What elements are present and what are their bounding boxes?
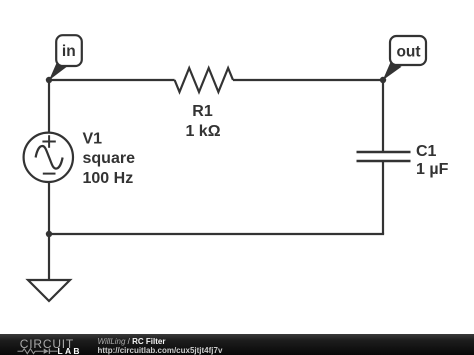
capacitor C1 plates — [357, 151, 411, 154]
wire: bottom horizontal from junction to bottom-right corner — [49, 233, 384, 235]
node in junction dot — [46, 77, 52, 83]
svg-text:1 kΩ: 1 kΩ — [185, 123, 220, 140]
svg-text:out: out — [396, 44, 420, 61]
svg-text:R1: R1 — [192, 103, 213, 120]
wire: right vertical from capacitor C1 down to bottom corner — [382, 162, 384, 234]
bottom junction dot — [46, 231, 52, 237]
footer bar — [0, 334, 474, 355]
ground symbol — [28, 280, 70, 301]
svg-text:1 µF: 1 µF — [416, 161, 449, 178]
wire: top-left horizontal from node in to resistor R1 — [49, 79, 175, 81]
wire: left vertical from V1 bottom to bottom junction — [48, 182, 50, 234]
node out junction dot — [380, 77, 386, 83]
svg-text:100 Hz: 100 Hz — [83, 170, 134, 187]
svg-text:square: square — [83, 150, 136, 167]
V1 sine wave — [36, 146, 63, 169]
node out label box — [390, 36, 426, 65]
wire: right vertical from node out down to capacitor C1 — [382, 80, 384, 151]
wire: top-right horizontal from resistor R1 to node out — [233, 79, 383, 81]
svg-text:C1: C1 — [416, 143, 437, 160]
wire: ground stub from bottom junction down to ground symbol — [48, 234, 50, 280]
voltage source V1 circle — [24, 133, 73, 182]
svg-text:http://circuitlab.com/cux5jtjt: http://circuitlab.com/cux5jtjt4fj7v — [98, 346, 223, 355]
resistor R1 zigzag — [175, 68, 233, 92]
V1 plus sign — [42, 141, 55, 143]
footer logo schematic wire with resistor and diode — [18, 349, 44, 354]
wire: left vertical from node in down to V1 top — [48, 80, 50, 133]
svg-text:in: in — [62, 43, 76, 60]
svg-text:LAB: LAB — [58, 346, 82, 355]
node in label box — [56, 35, 82, 66]
node out label flag tail — [383, 62, 402, 81]
svg-text:WillLing / RC Filter: WillLing / RC Filter — [98, 337, 166, 346]
V1 minus sign — [43, 173, 56, 175]
svg-text:V1: V1 — [83, 131, 103, 148]
node in label flag tail — [49, 61, 67, 80]
